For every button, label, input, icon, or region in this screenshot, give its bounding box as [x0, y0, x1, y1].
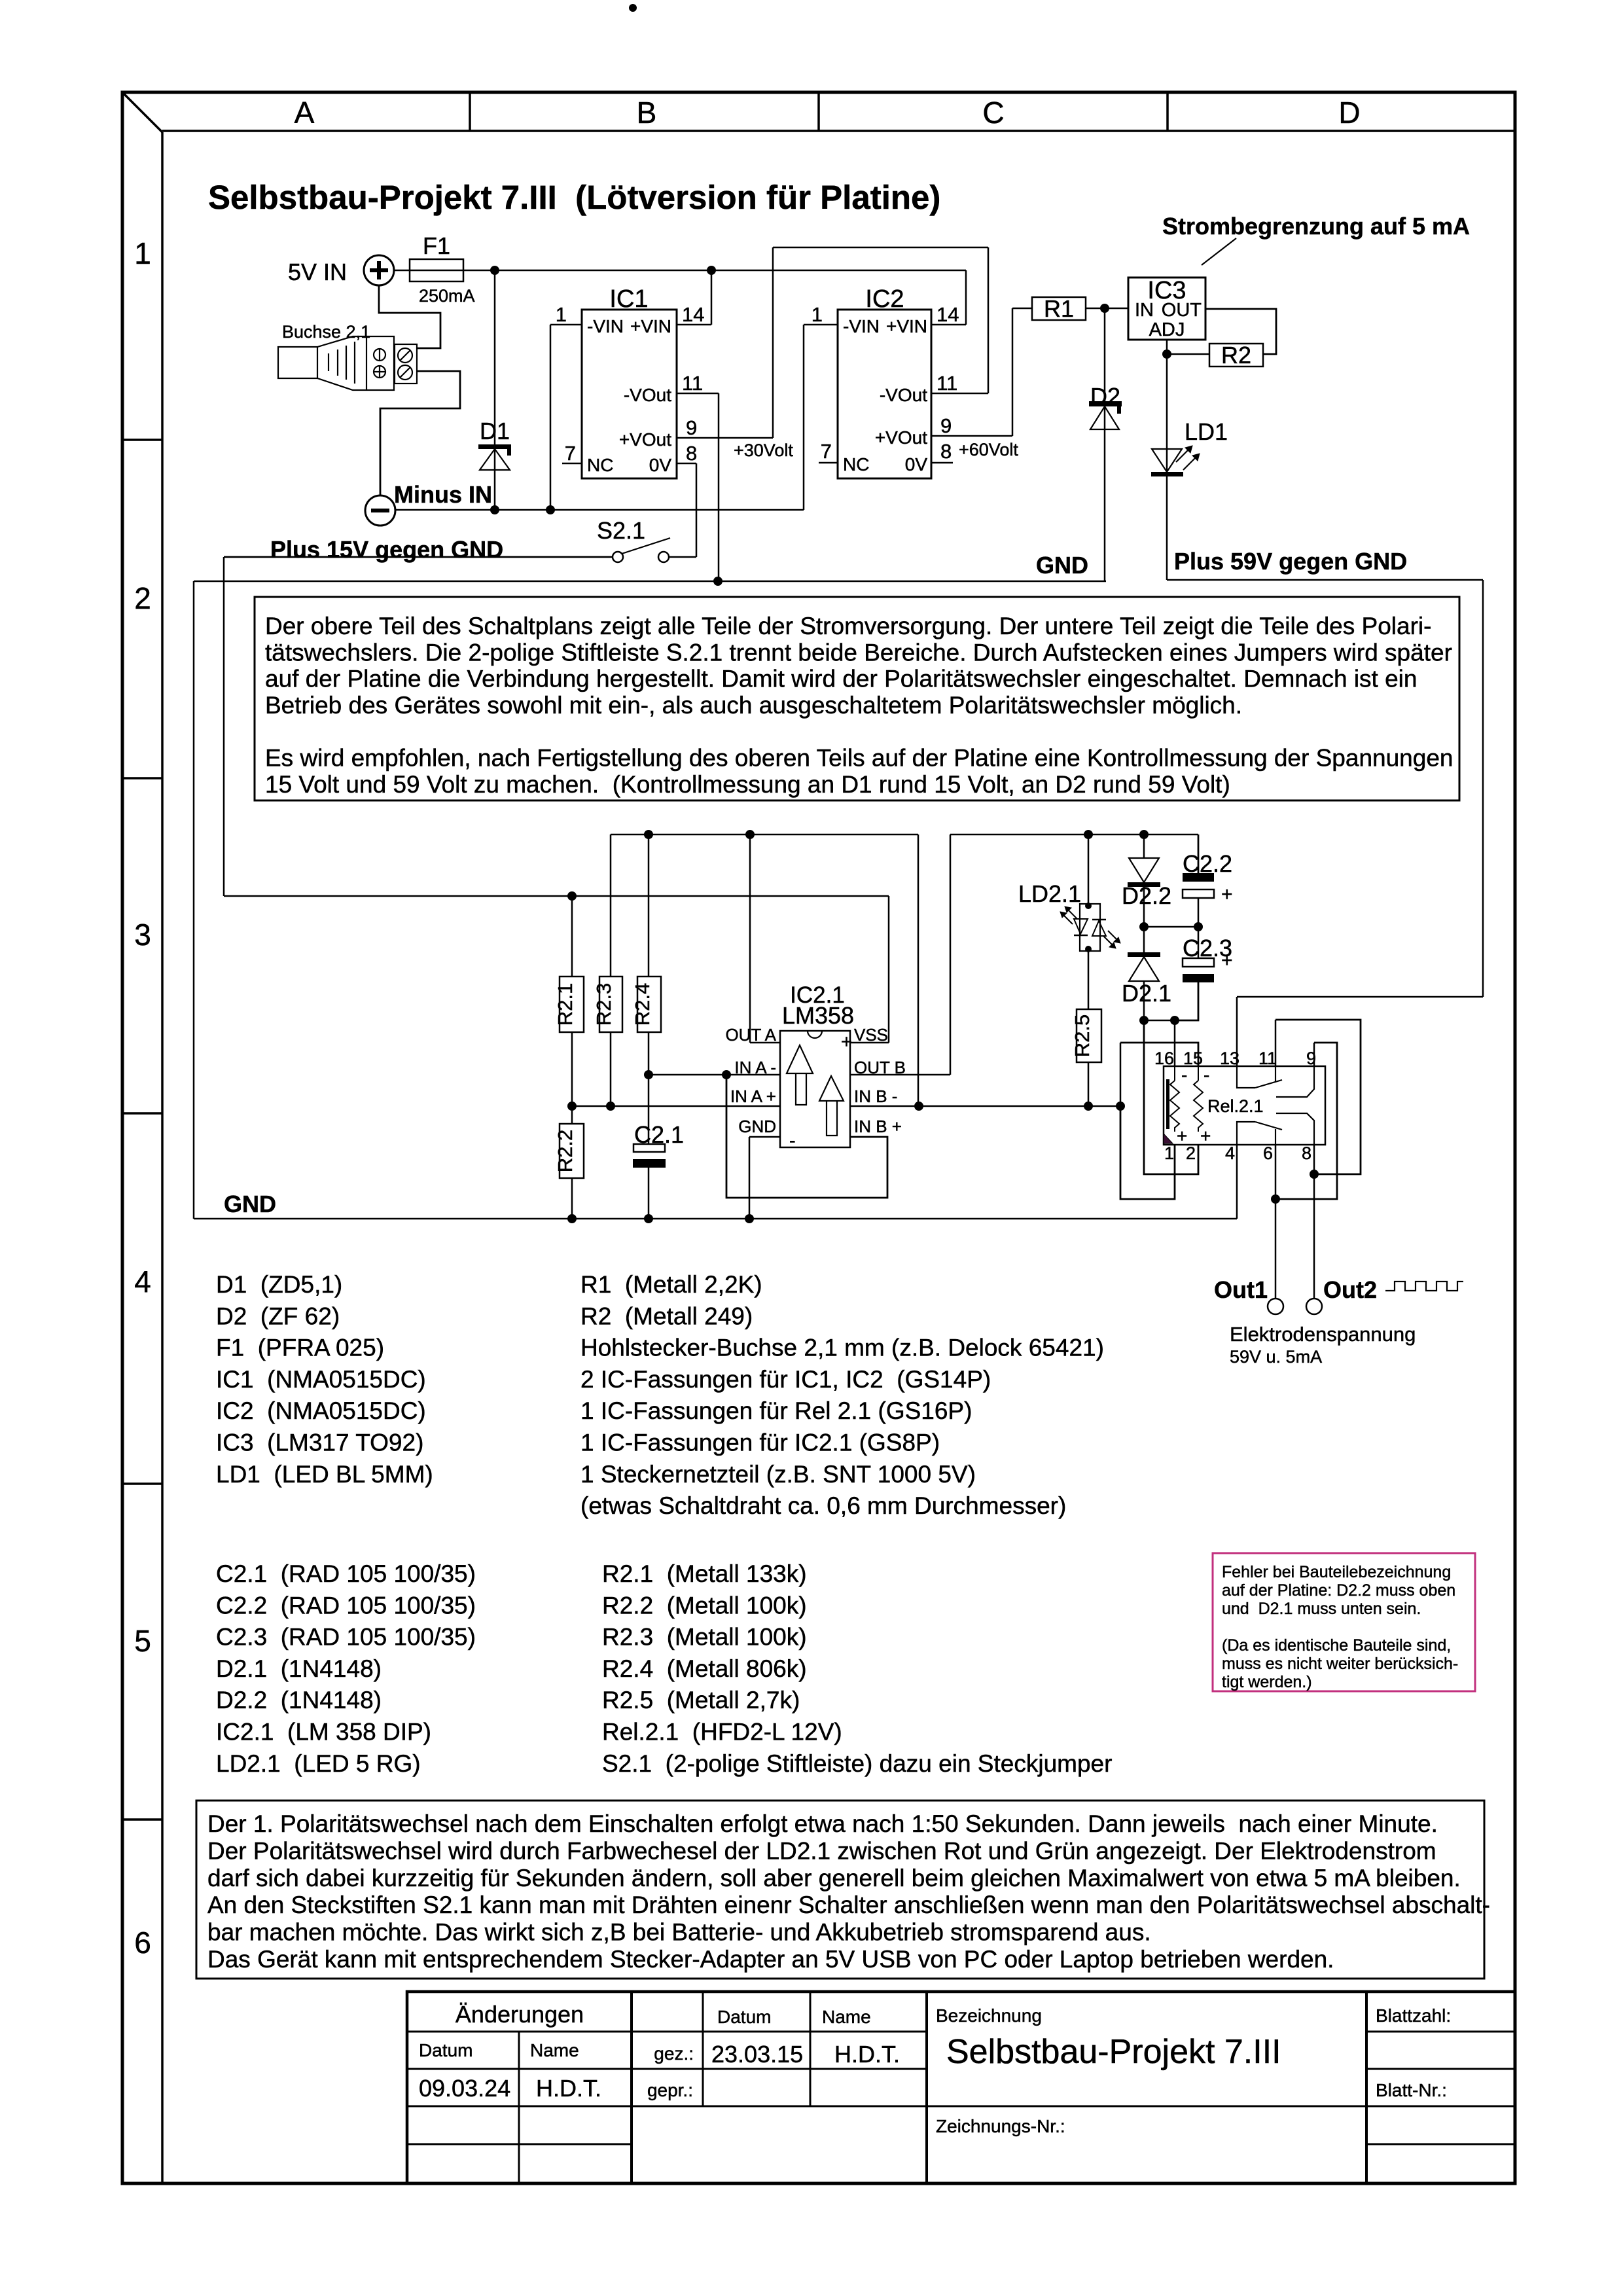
svg-text:1: 1 — [811, 303, 823, 326]
svg-text:(Da es identische Bauteile sin: (Da es identische Bauteile sind, — [1222, 1636, 1451, 1655]
parts list 2 right — [602, 1560, 1112, 1777]
resistor R2.2 (100k) — [554, 1106, 584, 1219]
svg-text:+60Volt: +60Volt — [959, 440, 1018, 459]
junction minus IC1 pin1 — [546, 505, 555, 514]
wire minus rail (0V) — [395, 325, 838, 510]
label GND bottom — [224, 1191, 276, 1217]
junction GND IC1 pin11 — [713, 577, 722, 586]
connector Buchse 2,1 barrel jack — [278, 322, 417, 390]
svg-text:2: 2 — [134, 581, 151, 615]
junction D2.2 D2.1 — [1139, 922, 1149, 931]
wire relay pin8 Out2 — [1313, 1145, 1315, 1299]
svg-text:IN A +: IN A + — [730, 1086, 776, 1106]
svg-text:Strombegrenzung auf 5 mA: Strombegrenzung auf 5 mA — [1162, 213, 1470, 240]
junction pin16 node — [1170, 1016, 1179, 1025]
title block — [407, 1992, 1515, 2183]
svg-text:NC: NC — [843, 454, 869, 475]
ic IC3 (LM317) — [1128, 277, 1205, 340]
junction ADJ R2 LD1 — [1162, 350, 1171, 359]
svg-text:Änderungen: Änderungen — [455, 2001, 584, 2028]
svg-text:darf sich dabei kurzzeitig für: darf sich dabei kurzzeitig für Sekunden … — [207, 1865, 1461, 1892]
svg-text:S2.1 (2-polige Stiftleiste) d: S2.1 (2-polige Stiftleiste) dazu ein Ste… — [602, 1750, 1112, 1777]
wire IC2 pin9 +60Volt to R1 — [931, 308, 1032, 459]
svg-text:C2.2: C2.2 — [1183, 850, 1232, 877]
relay Rel.2.1 (HFD2-L 12V) — [1154, 1049, 1325, 1163]
resistor R2.4 (806k) — [631, 834, 661, 1144]
svg-text:59V u. 5mA: 59V u. 5mA — [1230, 1347, 1322, 1367]
junction R1 D2 IC3 — [1100, 304, 1109, 313]
capacitor C2.1 — [633, 1121, 684, 1219]
junction GND C2.1 — [644, 1214, 653, 1223]
parts list 1 left — [216, 1271, 433, 1488]
svg-text:R2.4: R2.4 — [631, 983, 654, 1026]
wire IC2 pin8 stub — [931, 462, 953, 464]
junction GND R2.2 — [567, 1214, 577, 1223]
svg-text:tigt werden.): tigt werden.) — [1222, 1673, 1312, 1691]
svg-text:und D2.1 muss unten sein.: und D2.1 muss unten sein. — [1222, 1600, 1421, 1618]
svg-text:auf der Platine die Verbindung: auf der Platine die Verbindung hergestel… — [265, 666, 1417, 692]
svg-text:Es wird empfohlen, nach Fertig: Es wird empfohlen, nach Fertigstellung d… — [265, 745, 1454, 772]
wire rail OUT A net — [611, 834, 918, 1106]
svg-text:R2.5 (Metall 2,7k): R2.5 (Metall 2,7k) — [602, 1687, 800, 1713]
svg-text:An den Steckstiften S2.1 kann: An den Steckstiften S2.1 kann man mit Dr… — [207, 1892, 1490, 1918]
diode D2.1 (1N4148) — [1122, 927, 1171, 1020]
svg-text:IC2: IC2 — [865, 285, 904, 313]
wire IC3 OUT loop — [1205, 309, 1276, 354]
svg-text:0V: 0V — [649, 455, 672, 475]
junction INA+ R2.1 — [567, 1102, 577, 1111]
svg-text:1: 1 — [1164, 1143, 1174, 1163]
wire plus loop to jack — [379, 285, 440, 348]
svg-text:D1 (ZD5,1): D1 (ZD5,1) — [216, 1271, 342, 1298]
wire link D-C mid — [1144, 926, 1198, 928]
svg-text:R2.5: R2.5 — [1071, 1014, 1094, 1057]
svg-text:IN B +: IN B + — [854, 1117, 902, 1136]
svg-text:H.D.T.: H.D.T. — [536, 2075, 601, 2102]
svg-text:+: + — [1200, 1126, 1211, 1146]
junction INA- INB+ loop — [722, 1070, 731, 1079]
resistor R1 — [1032, 295, 1086, 322]
svg-text:4: 4 — [134, 1265, 151, 1299]
ic IC1 (NMA0515DC) — [556, 285, 705, 478]
title text — [208, 179, 940, 216]
junction +5V IC1 pin14 — [707, 266, 716, 275]
svg-text:gepr.:: gepr.: — [647, 2080, 693, 2100]
svg-text:VSS: VSS — [854, 1025, 888, 1045]
svg-text:5: 5 — [134, 1624, 151, 1658]
svg-text:R2.2 (Metall 100k): R2.2 (Metall 100k) — [602, 1592, 807, 1619]
wire +15V net down-left — [224, 557, 889, 1043]
wire relay pin16 — [1174, 1020, 1176, 1066]
svg-text:3: 3 — [134, 918, 151, 952]
label Plus 15V gegen GND — [270, 536, 503, 563]
wire IN B+ loop — [726, 1075, 887, 1198]
svg-text:Datum: Datum — [717, 2007, 771, 2027]
svg-text:D2.1 (1N4148): D2.1 (1N4148) — [216, 1655, 382, 1682]
svg-text:R2.3 (Metall 100k): R2.3 (Metall 100k) — [602, 1624, 807, 1651]
svg-text:R2 (Metall 249): R2 (Metall 249) — [580, 1302, 753, 1329]
svg-text:Zeichnungs-Nr.:: Zeichnungs-Nr.: — [936, 2116, 1065, 2136]
svg-text:D2 (ZF 62): D2 (ZF 62) — [216, 1302, 340, 1329]
svg-text:Out1: Out1 — [1214, 1276, 1268, 1303]
resistor R2.5 (2,7k) — [1071, 1009, 1101, 1106]
svg-text:+VOut: +VOut — [619, 429, 671, 450]
svg-text:Hohlstecker-Buchse 2,1 mm (z.B: Hohlstecker-Buchse 2,1 mm (z.B. Delock 6… — [580, 1335, 1104, 1361]
svg-text:15: 15 — [1183, 1049, 1203, 1068]
svg-text:Bezeichnung: Bezeichnung — [936, 2005, 1042, 2026]
svg-text:2 IC-Fassungen für IC1, IC2 (: 2 IC-Fassungen für IC1, IC2 (GS14P) — [580, 1366, 991, 1393]
svg-text:LM358: LM358 — [782, 1002, 854, 1029]
svg-text:9: 9 — [940, 414, 952, 437]
svg-text:14: 14 — [936, 303, 959, 326]
svg-text:7: 7 — [821, 440, 832, 463]
svg-text:LD2.1 (LED 5 RG): LD2.1 (LED 5 RG) — [216, 1750, 421, 1777]
svg-text:Der 1. Polaritätswechsel nach: Der 1. Polaritätswechsel nach dem Einsch… — [207, 1810, 1438, 1837]
wire 15V to S2.1 — [224, 556, 613, 558]
svg-text:LD2.1: LD2.1 — [1018, 880, 1081, 907]
wire IN A- line — [649, 1074, 780, 1076]
svg-text:B: B — [637, 96, 657, 130]
svg-text:-VOut: -VOut — [880, 385, 927, 405]
wire IC1 pin11 to GND line — [677, 393, 719, 581]
junction C2.2 C2.3 — [1194, 922, 1203, 931]
svg-text:Der Polaritätswechsel wird dur: Der Polaritätswechsel wird durch Farbwec… — [207, 1837, 1436, 1864]
svg-text:1 IC-Fassungen für Rel 2.1 (GS: 1 IC-Fassungen für Rel 2.1 (GS16P) — [580, 1397, 972, 1424]
svg-text:Das Gerät kann mit entsprechen: Das Gerät kann mit entsprechendem Stecke… — [207, 1946, 1334, 1973]
svg-text:C2.3 (RAD 105 100/35): C2.3 (RAD 105 100/35) — [216, 1624, 476, 1651]
junction pin6 link — [1271, 1194, 1280, 1204]
svg-text:IC2.1 (LM 358 DIP): IC2.1 (LM 358 DIP) — [216, 1719, 431, 1746]
svg-text:R2.3: R2.3 — [592, 983, 615, 1026]
svg-text:LD1: LD1 — [1185, 418, 1228, 445]
junction railB D2.2 — [1139, 830, 1149, 839]
opamp IC2.1 LM358 — [725, 982, 906, 1151]
wire plus to fuse — [395, 270, 410, 272]
svg-text:2: 2 — [1186, 1143, 1196, 1163]
wire IC3 ADJ — [1167, 340, 1209, 354]
svg-text:IN: IN — [1135, 300, 1154, 321]
junction pin8 link — [1310, 1170, 1319, 1179]
svg-text:11: 11 — [936, 372, 957, 395]
svg-text:16: 16 — [1154, 1049, 1174, 1068]
junction GND IC2.1 — [745, 1214, 754, 1223]
svg-text:OUT B: OUT B — [854, 1058, 906, 1077]
svg-text:(etwas Schaltdraht ca. 0,6 mm: (etwas Schaltdraht ca. 0,6 mm Durchmesse… — [580, 1492, 1066, 1519]
ic IC2 (NMA0515DC) — [811, 285, 959, 478]
svg-text:F1 (PFRA 025): F1 (PFRA 025) — [216, 1335, 384, 1361]
svg-text:IC3 (LM317 TO92): IC3 (LM317 TO92) — [216, 1429, 423, 1456]
svg-text:+VIN: +VIN — [886, 316, 927, 336]
svg-text:Plus 59V gegen GND: Plus 59V gegen GND — [1174, 548, 1407, 575]
svg-text:8: 8 — [686, 442, 697, 465]
svg-text:11: 11 — [1258, 1049, 1277, 1068]
wire GND top line — [194, 581, 1106, 1219]
wire IC2 pin7 stub — [819, 462, 838, 464]
node Out1 — [1214, 1276, 1283, 1314]
junction D2.1 anode — [1139, 1016, 1149, 1025]
resistor R2.3 (100k) — [592, 977, 622, 1106]
svg-text:D2.1: D2.1 — [1122, 980, 1171, 1007]
label Plus 59V gegen GND — [1174, 548, 1407, 575]
svg-text:IC1: IC1 — [609, 285, 648, 313]
svg-text:Minus IN: Minus IN — [394, 481, 492, 508]
svg-text:6: 6 — [1263, 1143, 1273, 1163]
svg-text:GND: GND — [738, 1117, 776, 1136]
svg-text:OUT A: OUT A — [725, 1025, 776, 1045]
svg-text:23.03.15: 23.03.15 — [711, 2041, 803, 2068]
svg-text:D2.2 (1N4148): D2.2 (1N4148) — [216, 1687, 382, 1713]
svg-text:R2.2: R2.2 — [554, 1130, 577, 1172]
svg-text:R2: R2 — [1221, 342, 1251, 368]
junction railA OUTA — [745, 830, 755, 839]
wire +5V rail — [463, 270, 966, 325]
svg-text:-VOut: -VOut — [624, 385, 671, 405]
svg-text:tätswechslers. Die 2-polige St: tätswechslers. Die 2-polige Stiftleiste … — [265, 639, 1452, 666]
svg-text:R2.1: R2.1 — [554, 983, 577, 1026]
svg-text:C2.2 (RAD 105 100/35): C2.2 (RAD 105 100/35) — [216, 1592, 476, 1619]
svg-text:Elektrodenspannung: Elektrodenspannung — [1230, 1323, 1416, 1346]
junction INA+ R2.3 — [606, 1102, 615, 1111]
svg-text:0V: 0V — [905, 454, 928, 475]
label GND top — [1036, 552, 1088, 579]
svg-text:+: + — [1221, 884, 1233, 905]
svg-text:F1: F1 — [423, 232, 450, 259]
svg-text:6: 6 — [134, 1926, 151, 1960]
wire jack minus loop — [380, 371, 460, 495]
led LD2.1 (LED 5 RG) — [1018, 834, 1120, 1009]
svg-text:auf der Platine: D2.2 muss obe: auf der Platine: D2.2 muss oben — [1222, 1581, 1455, 1600]
diode D1 (ZD5,1) — [478, 270, 511, 510]
svg-text:gez.:: gez.: — [654, 2043, 694, 2064]
svg-text:Datum: Datum — [419, 2040, 473, 2060]
label Strombegrenzung auf 5 mA — [1162, 213, 1470, 265]
svg-text:muss es nicht weiter berücksic: muss es nicht weiter berücksich- — [1222, 1655, 1458, 1673]
junction minus D1 — [490, 505, 499, 514]
svg-text:-VIN: -VIN — [843, 316, 880, 336]
svg-text:Betrieb des Gerätes sowohl mit: Betrieb des Gerätes sowohl mit ein-, als… — [265, 692, 1242, 719]
resistor R2.1 (133k) — [554, 896, 584, 1106]
junction INB- railA — [914, 1102, 923, 1111]
wire IC1 pin9 +30Volt to IC2 pin11 — [677, 247, 988, 460]
svg-text:4: 4 — [1225, 1143, 1235, 1163]
svg-text:1 Steckernetzteil (z.B. SNT 10: 1 Steckernetzteil (z.B. SNT 1000 5V) — [580, 1461, 976, 1488]
svg-text:H.D.T.: H.D.T. — [834, 2041, 900, 2068]
wire IN A+ line — [572, 1105, 780, 1107]
junction INB- relay — [1116, 1102, 1125, 1111]
wire IC1 pin7 stub — [562, 463, 582, 465]
svg-text:ADJ: ADJ — [1149, 319, 1185, 340]
wire IC1 pin8 to S2.1 — [669, 463, 696, 557]
svg-text:R2.4 (Metall 806k): R2.4 (Metall 806k) — [602, 1655, 807, 1682]
junction +15V R2.1 — [567, 891, 577, 901]
svg-text:+30Volt: +30Volt — [734, 440, 793, 460]
svg-text:C: C — [982, 96, 1004, 130]
svg-text:15 Volt und 59 Volt zu machen.: 15 Volt und 59 Volt zu machen. (Kontroll… — [265, 771, 1230, 798]
svg-text:R2.1 (Metall 133k): R2.1 (Metall 133k) — [602, 1560, 807, 1587]
node Out2 — [1306, 1276, 1463, 1314]
wire relay pin9 to pin6 — [1275, 1043, 1337, 1199]
svg-text:IC2 (NMA0515DC): IC2 (NMA0515DC) — [216, 1397, 426, 1424]
wire GND bottom rail — [194, 1145, 1237, 1219]
svg-text:NC: NC — [587, 455, 613, 475]
junction INB- R2.5 — [1084, 1102, 1093, 1111]
svg-text:1: 1 — [134, 236, 151, 270]
wire rail OUT B net — [850, 834, 1198, 1075]
svg-text:IN B -: IN B - — [854, 1086, 897, 1106]
junction +5V D1 — [490, 266, 499, 275]
svg-text:LD1 (LED BL 5MM): LD1 (LED BL 5MM) — [216, 1461, 433, 1488]
svg-text:+: + — [1221, 950, 1233, 971]
fuse F1 — [410, 232, 475, 306]
svg-text:bar machen möchte. Das wirkt s: bar machen möchte. Das wirkt sich z,B be… — [207, 1919, 1151, 1946]
wire relay pin1 loop — [1120, 1106, 1175, 1199]
junction INA- R2.4 — [644, 1070, 653, 1079]
svg-text:R1: R1 — [1044, 295, 1074, 322]
svg-text:IN A -: IN A - — [734, 1058, 776, 1077]
svg-text:7: 7 — [565, 442, 576, 465]
diode D2.2 (1N4148) — [1122, 834, 1171, 927]
svg-text:-: - — [1204, 1065, 1209, 1085]
svg-text:Name: Name — [822, 2007, 871, 2027]
svg-text:1 IC-Fassungen für IC2.1 (GS8P: 1 IC-Fassungen für IC2.1 (GS8P) — [580, 1429, 940, 1456]
svg-text:13: 13 — [1220, 1049, 1240, 1068]
parts list 2 left — [216, 1560, 476, 1777]
svg-text:14: 14 — [682, 303, 704, 326]
svg-text:C2.1 (RAD 105 100/35): C2.1 (RAD 105 100/35) — [216, 1560, 476, 1587]
wire +59V net LD1 to relay pin13 — [1167, 476, 1483, 1066]
svg-text:Fehler bei Bauteilebezeichnung: Fehler bei Bauteilebezeichnung — [1222, 1563, 1451, 1581]
node Minus IN terminal — [365, 481, 492, 526]
diode D2 (ZF 62) — [1089, 308, 1122, 581]
svg-text:250mA: 250mA — [419, 286, 475, 306]
wire OUT A stub — [750, 834, 780, 1043]
resistor R2 — [1209, 342, 1263, 368]
led LD1 (LED BL 5MM) — [1151, 354, 1228, 476]
wire IN B- line — [850, 1105, 1120, 1107]
capacitor C2.3 — [1175, 927, 1233, 1020]
svg-text:A: A — [294, 96, 315, 130]
note box upper — [255, 597, 1459, 800]
svg-text:Rel.2.1: Rel.2.1 — [1207, 1096, 1264, 1116]
note box lower — [196, 1801, 1490, 1979]
svg-text:OUT: OUT — [1162, 300, 1202, 321]
svg-text:-VIN: -VIN — [587, 316, 624, 336]
svg-text:Out2: Out2 — [1323, 1276, 1377, 1303]
svg-text:GND: GND — [224, 1191, 276, 1217]
junction railB LD2.1 — [1084, 830, 1093, 839]
svg-text:+VIN: +VIN — [630, 316, 671, 336]
svg-text:-: - — [789, 1130, 796, 1151]
svg-text:Rel.2.1 (HFD2-L 12V): Rel.2.1 (HFD2-L 12V) — [602, 1719, 842, 1746]
svg-text:IC1 (NMA0515DC): IC1 (NMA0515DC) — [216, 1366, 426, 1393]
note box pink — [1213, 1553, 1475, 1691]
svg-text:1: 1 — [556, 303, 567, 326]
svg-text:Name: Name — [530, 2040, 579, 2060]
wire link 1559 — [1144, 1020, 1175, 1022]
wire relay pin6 Out1 — [1275, 1145, 1277, 1299]
svg-text:+: + — [841, 1031, 852, 1052]
svg-text:Blatt-Nr.:: Blatt-Nr.: — [1376, 2080, 1447, 2100]
svg-text:GND: GND — [1036, 552, 1088, 579]
svg-text:Selbstbau-Projekt 7.III (Lötv: Selbstbau-Projekt 7.III (Lötversion für … — [208, 179, 940, 216]
wire R1 to IC3 — [1086, 308, 1128, 310]
label Elektrodenspannung — [1230, 1323, 1416, 1367]
svg-text:11: 11 — [682, 372, 703, 395]
wire relay pin2 loop — [1144, 1020, 1198, 1174]
svg-text:D: D — [1338, 96, 1360, 130]
svg-text:09.03.24: 09.03.24 — [419, 2075, 510, 2102]
junction railA R2.4 — [644, 830, 653, 839]
node 5V IN plus terminal — [288, 255, 394, 285]
switch S2.1 — [597, 517, 670, 562]
wire IC2.1 GND pin — [749, 1137, 780, 1219]
capacitor C2.2 — [1183, 834, 1233, 927]
svg-text:Blattzahl:: Blattzahl: — [1376, 2005, 1451, 2026]
svg-text:S2.1: S2.1 — [597, 517, 645, 544]
svg-text:Plus 15V gegen GND: Plus 15V gegen GND — [270, 536, 503, 563]
svg-text:Der obere Teil des Schaltplans: Der obere Teil des Schaltplans zeigt all… — [265, 613, 1431, 639]
svg-text:9: 9 — [686, 416, 697, 439]
svg-text:8: 8 — [1302, 1143, 1311, 1163]
parts list 1 right — [580, 1271, 1104, 1519]
svg-text:+VOut: +VOut — [875, 427, 927, 448]
svg-text:R1 (Metall 2,2K): R1 (Metall 2,2K) — [580, 1271, 762, 1298]
wire link 1593 pin15 — [1120, 1043, 1198, 1106]
svg-text:8: 8 — [940, 440, 952, 463]
svg-text:Selbstbau-Projekt 7.III: Selbstbau-Projekt 7.III — [946, 2033, 1281, 2071]
svg-text:Buchse 2,1: Buchse 2,1 — [282, 322, 370, 342]
svg-text:5V IN: 5V IN — [288, 259, 347, 285]
wire relay pin11 to pin8 — [1275, 1020, 1361, 1174]
